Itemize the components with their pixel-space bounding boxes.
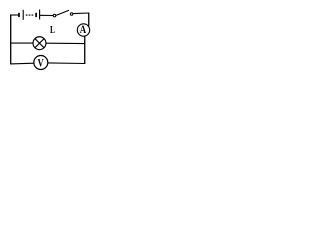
svg-text:V: V [38,57,45,69]
voltmeter V1 circle [34,56,48,70]
svg-text:A: A [80,24,87,36]
switch S blade [56,10,69,15]
svg-text:L: L [50,24,55,36]
wire left vertical to lamp [10,42,33,44]
ammeter A1 circle [77,24,89,36]
lamp L cross stroke 2 [35,39,44,48]
wire bottom-left to voltmeter [10,62,34,65]
lamp L cross stroke 1 [35,39,44,48]
battery cell 1 short plate [18,13,20,17]
wire battery to switch [40,14,53,16]
switch S left contact [53,14,56,17]
wire top-right corner down to ammeter [88,13,90,27]
wire dashed battery link [26,14,35,16]
battery cell 2 short plate [35,13,37,17]
wire lamp to right vertical [46,42,85,44]
wire left vertical [10,15,12,65]
battery cell 1 long plate [22,10,24,20]
wire top-left horizontal [10,14,19,16]
wire right vertical (ammeter to bottom-right corner) [84,36,86,64]
wire voltmeter to bottom-right corner [48,62,85,65]
battery cell 2 long plate [39,10,41,20]
lamp L circle [33,37,46,50]
switch S right contact [70,13,73,16]
wire switch to top-right corner [73,12,89,15]
